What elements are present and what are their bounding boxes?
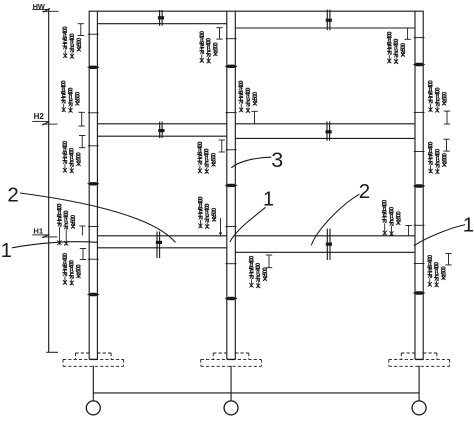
leader of callout 1 left [12, 242, 97, 248]
svg-text:≥Hn/6=400: ≥Hn/6=400 [63, 26, 69, 50]
svg-text:≥Hn/6=400: ≥Hn/6=400 [429, 80, 435, 104]
roof beam left span bottom [97, 23, 226, 25]
level-2 beam left span [97, 123, 226, 125]
level line H1 [32, 234, 48, 236]
hinge mark level-2 right span [326, 122, 328, 141]
zone tick on column 3 at y=225.3 [414, 224, 425, 226]
svg-text:≥Hn/6=400: ≥Hn/6=400 [429, 141, 435, 165]
svg-text:≥500: ≥500 [77, 37, 83, 48]
inflection mark column 1 y=67.3 [87, 66, 100, 69]
hinge mark level-2 left span [159, 122, 161, 139]
svg-text:≥hc=400: ≥hc=400 [69, 87, 75, 106]
svg-text:≥Hn/6=400: ≥Hn/6=400 [62, 80, 68, 104]
inflection mark column 2 y=185.4 [225, 184, 238, 187]
axis stem C [418, 366, 420, 401]
svg-text:≥500: ≥500 [401, 42, 407, 53]
axis stem B [230, 366, 232, 401]
svg-text:≥500: ≥500 [71, 214, 77, 225]
svg-text:≥Hn/6=400: ≥Hn/6=400 [428, 254, 434, 278]
footing F3 (dashed) [401, 352, 415, 354]
svg-text:≥500: ≥500 [442, 91, 448, 102]
leader of callout 2 right [311, 194, 359, 245]
zone tick on column 2 at y=112.6 [226, 112, 237, 114]
svg-text:≥500: ≥500 [442, 266, 448, 277]
svg-text:≥500: ≥500 [77, 152, 83, 163]
inflection mark column 3 y=64.5 [413, 63, 426, 66]
inflection mark column 3 y=186.0 [413, 184, 426, 187]
svg-text:≥Hn/6=400: ≥Hn/6=400 [249, 255, 255, 279]
svg-text:2: 2 [359, 180, 370, 203]
svg-text:≥500: ≥500 [77, 264, 83, 275]
zone tick on column 2 at y=149.8 [226, 149, 237, 151]
svg-text:≥500: ≥500 [253, 91, 259, 102]
column Z1 (left) [88, 11, 90, 359]
footing F2 (dashed) [213, 352, 227, 354]
level-1 (H1) beam right span (deeper) [235, 235, 415, 237]
svg-text:≥hc=400: ≥hc=400 [435, 261, 441, 280]
svg-text:≥hc=400: ≥hc=400 [435, 148, 441, 167]
svg-text:≥Hn/6=400: ≥Hn/6=400 [198, 196, 204, 220]
column Z2 (middle) [226, 11, 228, 359]
column Z3 (right) [414, 11, 416, 359]
leader of callout 3 [231, 157, 271, 168]
axis bubble C [412, 401, 426, 415]
svg-text:≥Hn/6=400: ≥Hn/6=400 [383, 199, 389, 223]
inflection mark column 1 y=294.5 [87, 293, 100, 296]
roof beam top chord (full width) [89, 10, 424, 12]
ground level foot [46, 351, 58, 353]
svg-text:≥hc=400: ≥hc=400 [205, 203, 211, 222]
hinge mark level-1 left span [156, 232, 158, 259]
zone tick on column 3 at y=263.5 [414, 263, 425, 265]
leader of callout 1 right [414, 225, 466, 246]
zone tick on column 1 at y=259.2 [88, 258, 99, 260]
svg-text:H1: H1 [33, 227, 43, 236]
zone tick on column 1 at y=112.8 [88, 112, 99, 114]
zone tick on column 2 at y=226.5 [226, 226, 237, 228]
svg-text:H2: H2 [34, 112, 45, 121]
inflection mark column 3 y=293.0 [413, 291, 426, 294]
svg-text:≥hc=400: ≥hc=400 [246, 87, 252, 106]
svg-text:HW: HW [33, 2, 45, 11]
svg-text:1: 1 [1, 240, 12, 262]
zone tick on column 3 at y=37.6 [414, 37, 425, 39]
zone tick on column 2 at y=38.7 [226, 38, 237, 40]
svg-text:≥Hn/6=400: ≥Hn/6=400 [200, 30, 206, 54]
svg-text:≥500: ≥500 [76, 91, 82, 102]
svg-text:≥hc=400: ≥hc=400 [70, 147, 76, 166]
svg-text:3: 3 [271, 148, 283, 172]
level line H2 [32, 120, 48, 122]
axis stem A [92, 366, 94, 401]
svg-text:≥hc=400: ≥hc=400 [394, 38, 400, 57]
inflection mark column 1 y=183.8 [87, 182, 100, 185]
svg-text:≥500: ≥500 [212, 207, 218, 218]
svg-text:≥hc=400: ≥hc=400 [70, 33, 76, 52]
level line HW [32, 8, 48, 10]
svg-text:≥Hn/6=400: ≥Hn/6=400 [387, 31, 393, 55]
svg-text:≥hc=400: ≥hc=400 [64, 210, 70, 229]
svg-text:≥hc=400: ≥hc=400 [205, 148, 211, 167]
svg-text:≥500: ≥500 [442, 152, 448, 163]
dimension line vertical [48, 9, 50, 352]
zone tick on column 1 at y=145.8 [88, 145, 99, 147]
svg-text:≥hc=400: ≥hc=400 [70, 259, 76, 278]
zone tick on column 3 at y=112.4 [414, 111, 425, 113]
axis bubble B [224, 401, 238, 415]
zone tick on column 2 at y=263.7 [226, 263, 237, 265]
axis bubble A [86, 401, 100, 415]
leader of callout 2 left [20, 193, 176, 243]
svg-text:≥Hn/6=400: ≥Hn/6=400 [198, 141, 204, 165]
hinge mark roof right span [326, 10, 328, 31]
svg-text:≥500: ≥500 [397, 211, 403, 222]
hinge mark roof left span [159, 10, 161, 26]
inflection mark column 2 y=298.5 [225, 297, 238, 300]
svg-text:≥500: ≥500 [212, 152, 218, 163]
svg-text:≥Hn/6=400: ≥Hn/6=400 [63, 140, 69, 164]
inflection mark column 2 y=66.3 [225, 65, 238, 68]
axis grid connector line [93, 392, 419, 394]
svg-text:≥hc=400: ≥hc=400 [256, 262, 262, 281]
svg-text:≥hc=400: ≥hc=400 [435, 87, 441, 106]
svg-text:≥Hn/6=400: ≥Hn/6=400 [63, 252, 69, 276]
svg-text:2: 2 [7, 184, 18, 207]
level-2 beam right span (deeper) [235, 123, 415, 125]
hinge mark level-1 right span [326, 229, 328, 261]
svg-text:≥Hn/6=400: ≥Hn/6=400 [57, 203, 63, 227]
zone tick on column 1 at y=226.5 [88, 226, 99, 228]
zone tick on column 1 at y=34.2 [88, 33, 99, 35]
svg-text:≥hc=400: ≥hc=400 [390, 206, 396, 225]
leader of callout 1 middle [230, 207, 266, 242]
svg-text:≥Hn/6=400: ≥Hn/6=400 [239, 80, 245, 104]
svg-text:≥500: ≥500 [214, 42, 220, 53]
svg-text:≥hc=400: ≥hc=400 [207, 37, 213, 56]
zone tick on column 3 at y=151.5 [414, 151, 425, 153]
svg-text:≥500: ≥500 [263, 267, 269, 278]
roof beam right span bottom (deeper) [235, 27, 415, 29]
level-1 (H1) beam left span [97, 235, 226, 237]
footing F1 (dashed) [76, 352, 90, 354]
